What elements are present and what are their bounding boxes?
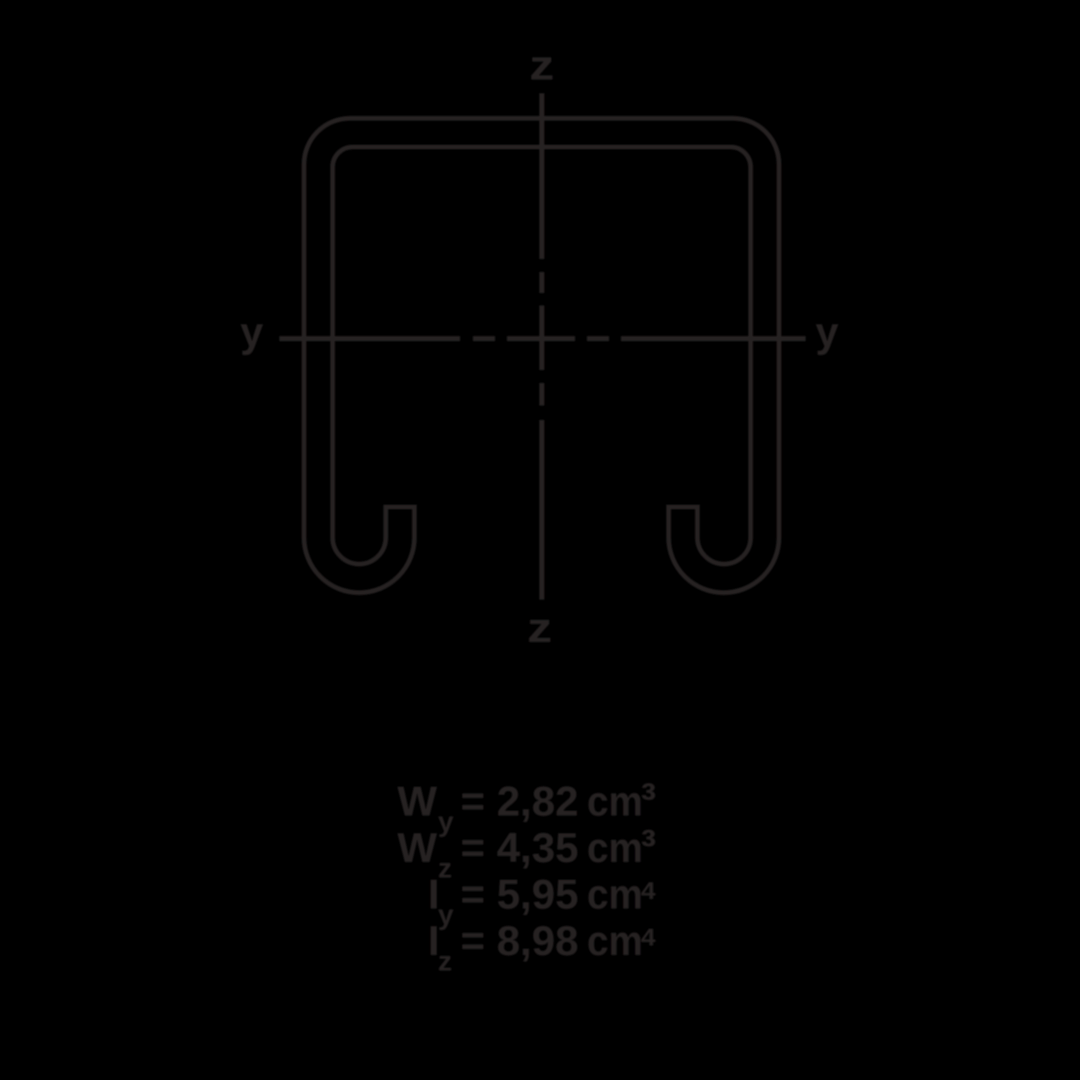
section property line Iy = 5,95 cm4: [428, 869, 658, 930]
svg-text:W: W: [397, 778, 437, 825]
svg-text:z: z: [438, 946, 452, 977]
svg-text:W: W: [397, 824, 437, 871]
svg-text:³: ³: [641, 774, 656, 826]
svg-text:cm: cm: [587, 917, 643, 964]
svg-text:⁴: ⁴: [639, 915, 658, 968]
svg-text:y: y: [438, 899, 454, 930]
section property line Wy = 2,82 cm3: [397, 774, 656, 838]
section property line Iz = 8,98 cm4: [428, 915, 658, 976]
svg-text:= 2,82: = 2,82: [461, 778, 579, 825]
svg-text:y: y: [240, 309, 264, 356]
svg-text:cm: cm: [587, 871, 643, 918]
svg-text:z: z: [529, 42, 554, 89]
svg-text:z: z: [438, 853, 452, 884]
svg-text:= 4,35: = 4,35: [461, 824, 579, 871]
svg-text:y: y: [438, 806, 454, 837]
C-channel profile cross-section outline: [304, 118, 779, 592]
svg-text:= 8,98: = 8,98: [461, 917, 579, 964]
svg-text:⁴: ⁴: [639, 869, 658, 922]
z axis centerline (vertical dash-dot): [539, 93, 544, 599]
svg-text:= 5,95: = 5,95: [461, 871, 579, 918]
svg-text:cm: cm: [587, 778, 643, 825]
svg-text:³: ³: [641, 820, 656, 872]
section property line Wz = 4,35 cm3: [397, 820, 656, 884]
svg-text:cm: cm: [587, 824, 643, 871]
svg-text:y: y: [816, 309, 840, 356]
y axis centerline (horizontal dash-dot): [279, 336, 805, 341]
svg-text:z: z: [527, 604, 552, 651]
